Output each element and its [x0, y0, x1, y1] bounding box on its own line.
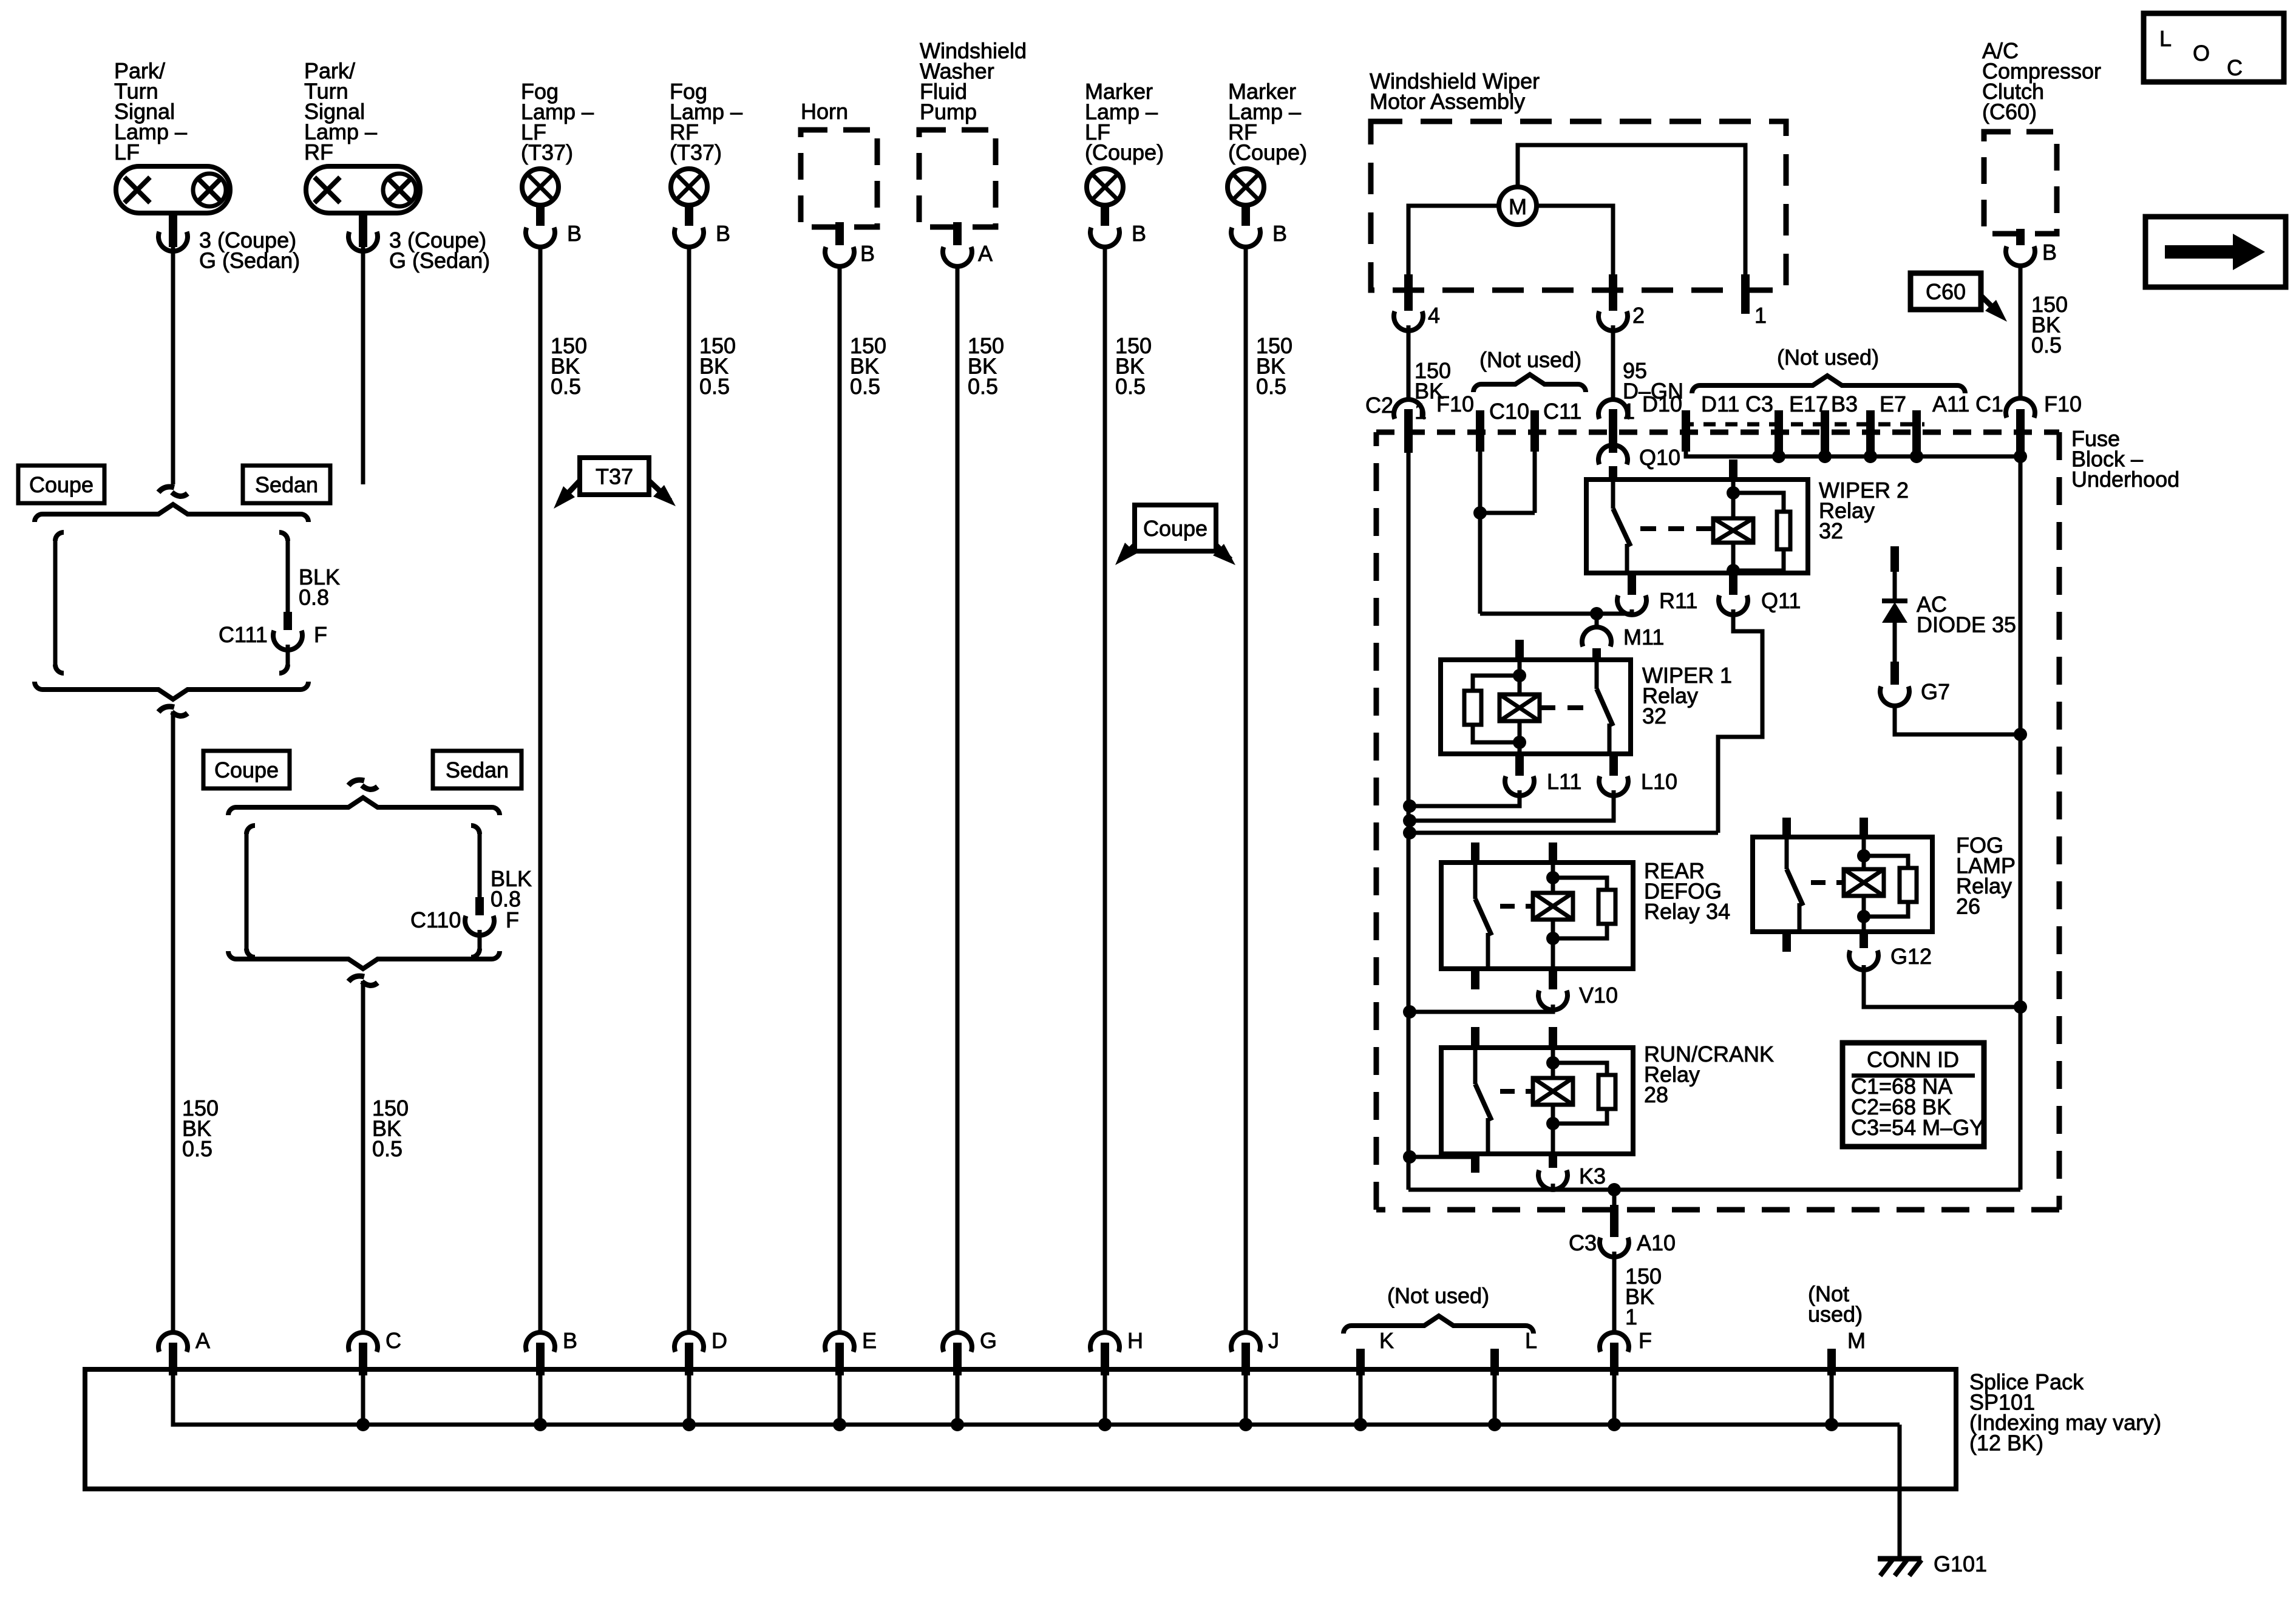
svg-text:Sedan: Sedan: [255, 472, 318, 497]
svg-text:(Not used): (Not used): [1387, 1283, 1489, 1308]
fog relay resistor: [1864, 856, 1908, 868]
svg-text:Underhood: Underhood: [2071, 467, 2179, 492]
svg-text:DIODE 35: DIODE 35: [1917, 612, 2016, 637]
connector C110 pin F: [475, 897, 484, 915]
wiper1 coil: [1518, 661, 1522, 694]
wiper2 coil: [1731, 481, 1736, 520]
splice pin A: [158, 1332, 188, 1352]
svg-text:K3: K3: [1579, 1164, 1606, 1188]
wire park LF to splice A: [171, 711, 175, 1334]
svg-text:0.5: 0.5: [551, 374, 581, 399]
splice pin D: [674, 1332, 704, 1352]
svg-text:0.5: 0.5: [968, 374, 998, 399]
svg-text:C10: C10: [1489, 399, 1529, 424]
svg-text:C60: C60: [1926, 279, 1966, 304]
svg-text:Coupe: Coupe: [214, 758, 279, 782]
svg-text:Q10: Q10: [1639, 445, 1680, 470]
svg-text:1: 1: [1754, 303, 1767, 328]
connector M11 (wiper 1 relay input): [1595, 614, 1599, 629]
svg-text:(Not used): (Not used): [1777, 345, 1879, 370]
connector C1 F10 (fuse block top, from A/C clutch): [2006, 398, 2035, 418]
svg-text:Pump: Pump: [920, 100, 977, 124]
park/turn signal lamp symbol at x=598: [306, 166, 420, 213]
runcrank dashed actuator link: [1500, 1089, 1533, 1094]
fog relay switch: [1782, 818, 1791, 838]
wiper1 pin L10: [1609, 754, 1618, 776]
wire runcrank switch to left bus: [1410, 1155, 1475, 1159]
wire fog LF to splice B: [538, 245, 543, 1334]
wire G12 to right bus: [1864, 965, 2020, 1007]
wire Q11 to ground bus line: [1718, 609, 1762, 833]
svg-text:T37: T37: [596, 464, 633, 489]
option label box Sedan: [243, 466, 330, 503]
washer pump pin A: [953, 222, 962, 245]
connector G7: [1880, 686, 1909, 706]
motor pin 1: [1741, 274, 1750, 314]
option bracket top (section 1): [35, 514, 42, 522]
motor pin 4: [1404, 274, 1413, 311]
fog lamp LF bulb: [522, 169, 559, 205]
svg-text:RF: RF: [304, 140, 333, 164]
svg-text:4: 4: [1428, 303, 1440, 328]
CONN ID table: [1843, 1043, 1984, 1147]
wire break on park RF wire: [348, 780, 364, 785]
svg-text:E7: E7: [1880, 392, 1906, 416]
svg-text:G (Sedan): G (Sedan): [389, 248, 490, 273]
svg-text:B: B: [860, 241, 875, 266]
wiper1 pin L11: [1515, 754, 1524, 776]
svg-text:used): used): [1808, 1302, 1863, 1327]
splice pin J: [1231, 1332, 1260, 1352]
svg-text:(Not used): (Not used): [1479, 347, 1581, 372]
svg-text:(T37): (T37): [521, 140, 573, 165]
splice pin F (from fuse block): [1600, 1332, 1629, 1352]
svg-text:E: E: [862, 1328, 877, 1353]
splice pin G: [943, 1332, 972, 1352]
fog lamp RF bulb: [671, 169, 707, 205]
wiper2 switch: [1611, 481, 1615, 509]
wire break on park LF wire: [158, 487, 174, 492]
wire L10 to left bus: [1410, 790, 1614, 821]
svg-text:0.5: 0.5: [1115, 374, 1146, 399]
A/C pin B: [2016, 229, 2025, 245]
fog relay coil: [1860, 818, 1868, 838]
marker lamp RF bulb: [1228, 169, 1264, 205]
svg-text:0.5: 0.5: [2031, 333, 2062, 358]
runcrank pin K3: [1549, 1154, 1557, 1168]
svg-text:G: G: [980, 1328, 997, 1353]
svg-text:M: M: [1509, 194, 1527, 219]
svg-text:B: B: [567, 221, 582, 246]
svg-text:G7: G7: [1921, 679, 1950, 704]
svg-text:C111: C111: [219, 622, 268, 647]
REAR DEFOG Relay 34 box: [1441, 863, 1633, 969]
runcrank switch: [1471, 1027, 1479, 1049]
defog pin V10: [1549, 969, 1557, 989]
callout box Coupe with arrows (marker lamps): [1135, 505, 1216, 551]
wire A10 to splice F: [1612, 1252, 1617, 1334]
svg-text:Sedan: Sedan: [446, 758, 509, 782]
svg-text:M11: M11: [1623, 625, 1664, 649]
svg-text:0.5: 0.5: [182, 1136, 212, 1161]
svg-text:(C60): (C60): [1982, 100, 2037, 124]
svg-text:2: 2: [1632, 303, 1645, 328]
FOG LAMP Relay 26 box: [1753, 837, 1932, 932]
svg-text:CONN ID: CONN ID: [1867, 1047, 1959, 1072]
wiper motor assembly dashed box: [1371, 121, 1786, 290]
runcrank coil: [1549, 1027, 1557, 1049]
splice pack SP101 box: [85, 1369, 1956, 1489]
wire horn to splice E: [838, 265, 842, 1334]
fuse block bottom ground bus: [1408, 1188, 2020, 1192]
callout box T37 with arrows: [580, 458, 649, 495]
wiper motor M circle: [1499, 187, 1537, 225]
marker lamp LF bulb: [1087, 169, 1123, 205]
svg-text:G (Sedan): G (Sedan): [199, 248, 300, 273]
wire V10 to left bus: [1410, 1005, 1553, 1012]
washer pump dashed box: [919, 130, 996, 227]
wiper1 coil pin free stub: [1515, 640, 1524, 661]
WIPER 1 Relay 32 box: [1441, 660, 1631, 754]
wiper2 pin Q11: [1729, 573, 1737, 595]
wire not-used pins to right bus: [1686, 452, 2020, 456]
wire marker LF to splice H: [1103, 245, 1107, 1334]
svg-text:(T37): (T37): [670, 140, 722, 165]
wiper2 resistor: [1733, 493, 1784, 512]
svg-text:F10: F10: [1436, 392, 1474, 416]
svg-text:Motor Assembly: Motor Assembly: [1370, 89, 1525, 114]
coupe option wire (section 2 left): [246, 825, 255, 834]
svg-text:C3: C3: [1569, 1230, 1597, 1255]
runcrank resistor: [1553, 1063, 1607, 1075]
WIPER 2 Relay 32 box: [1586, 480, 1808, 573]
LOC legend box: [2144, 13, 2284, 82]
svg-text:J: J: [1268, 1328, 1279, 1353]
svg-text:F: F: [314, 622, 327, 647]
fuse block right bus from F10: [2019, 452, 2023, 1190]
splice pin C: [348, 1332, 378, 1352]
svg-text:Coupe: Coupe: [1143, 516, 1207, 541]
svg-text:L: L: [1525, 1328, 1537, 1353]
wire motor to pin 4: [1408, 206, 1499, 285]
connector C2 F10 (fuse block top, from motor pin 4): [1394, 399, 1423, 419]
svg-text:A10: A10: [1637, 1230, 1676, 1255]
svg-text:(Coupe): (Coupe): [1085, 140, 1164, 165]
svg-text:1: 1: [1625, 1304, 1637, 1329]
svg-text:(Coupe): (Coupe): [1228, 140, 1307, 165]
svg-text:B3: B3: [1831, 392, 1858, 416]
svg-text:K: K: [1379, 1328, 1394, 1353]
svg-text:H: H: [1127, 1328, 1143, 1353]
svg-text:G12: G12: [1890, 944, 1932, 969]
option label box Coupe: [18, 466, 104, 503]
motor pin 2: [1609, 274, 1617, 311]
svg-text:C: C: [2227, 55, 2243, 80]
wire R11 to M11 junction and C10/C11 loop: [1630, 609, 1634, 614]
svg-text:A: A: [978, 241, 993, 266]
option bracket top (section 2): [228, 807, 236, 815]
horn pin B: [835, 222, 844, 245]
svg-text:26: 26: [1956, 894, 1980, 919]
svg-text:0.5: 0.5: [699, 374, 730, 399]
svg-text:D10: D10: [1642, 392, 1682, 416]
svg-text:B: B: [1272, 221, 1287, 246]
wire break below section 2: [348, 976, 364, 981]
svg-text:LF: LF: [114, 140, 140, 164]
wire Q11 path to left bus: [1410, 831, 1718, 835]
wire pin 4 to fuse block C2: [1407, 325, 1411, 401]
defog dashed actuator link: [1500, 904, 1533, 909]
svg-text:0.5: 0.5: [850, 374, 880, 399]
option label box Coupe (section 2): [203, 751, 290, 788]
wiper2 pin R11: [1628, 573, 1636, 595]
fuse block left ground bus: [1407, 452, 1411, 1190]
svg-text:A: A: [195, 1328, 210, 1353]
option bracket bottom (section 2): [228, 951, 236, 959]
sedan option wire (section 2 right): [471, 825, 480, 834]
svg-text:L10: L10: [1641, 769, 1677, 794]
coupe option wire (section 1 left): [55, 532, 64, 541]
svg-text:C2: C2: [1365, 393, 1393, 418]
svg-text:Coupe: Coupe: [29, 472, 93, 497]
svg-text:R11: R11: [1659, 588, 1697, 613]
defog coil: [1549, 842, 1557, 864]
svg-text:D11: D11: [1701, 392, 1739, 416]
svg-text:32: 32: [1642, 703, 1666, 728]
svg-text:C3=54 M–GY: C3=54 M–GY: [1851, 1115, 1984, 1140]
wire G7 to right bus: [1895, 704, 2020, 734]
svg-text:F10: F10: [2044, 392, 2082, 416]
svg-text:28: 28: [1644, 1082, 1668, 1107]
RUN/CRANK Relay 28 box: [1441, 1048, 1633, 1154]
svg-text:B: B: [563, 1328, 577, 1353]
fuse block underhood dashed outline: [1376, 430, 2059, 435]
svg-text:A11: A11: [1932, 392, 1969, 416]
svg-text:M: M: [1847, 1328, 1866, 1353]
wiper2 coil pin free stub: [1729, 459, 1737, 481]
splice pin H: [1090, 1332, 1119, 1352]
wiper1 dashed actuator link: [1540, 705, 1583, 710]
svg-text:C110: C110: [410, 907, 461, 932]
splice pack internal bus: [173, 1375, 1900, 1425]
connector C3 A10: [1612, 1190, 1617, 1205]
option label box Sedan (section 2): [433, 751, 521, 788]
ground G101: [1878, 1556, 1921, 1562]
splice ground wire to G101: [1898, 1425, 1902, 1559]
svg-text:C3: C3: [1745, 392, 1773, 416]
wire park RF to splice C: [361, 981, 365, 1334]
wire pin 2 to fuse block D10: [1611, 325, 1615, 401]
svg-text:0.5: 0.5: [1256, 374, 1286, 399]
svg-text:32: 32: [1819, 518, 1843, 543]
defog switch: [1471, 842, 1479, 864]
defog resistor: [1553, 878, 1607, 890]
svg-text:(12 BK): (12 BK): [1969, 1431, 2043, 1456]
svg-text:L11: L11: [1547, 769, 1581, 794]
park/turn signal lamp symbol at x=285: [116, 166, 230, 213]
svg-text:F: F: [506, 907, 519, 932]
svg-text:C11: C11: [1543, 399, 1581, 424]
svg-text:L: L: [2159, 26, 2172, 51]
connector D10 (fuse block top, from motor pin 2): [1598, 399, 1628, 419]
wire motor to pin 2: [1537, 206, 1613, 285]
wiper1 resistor: [1473, 676, 1520, 691]
svg-text:B: B: [2042, 240, 2057, 265]
wire L11 to left bus: [1410, 790, 1520, 806]
wire fog RF to splice D: [687, 245, 691, 1334]
wiper1 switch: [1595, 661, 1599, 689]
wiper2 dashed actuator link: [1640, 526, 1713, 531]
option bracket bottom (section 1): [35, 682, 42, 690]
svg-text:B: B: [716, 221, 730, 246]
connector C111 pin F: [284, 612, 292, 630]
svg-text:V10: V10: [1579, 983, 1618, 1008]
arrow legend box: [2145, 217, 2286, 287]
svg-text:Horn: Horn: [801, 99, 848, 124]
horn dashed box: [801, 130, 877, 227]
svg-text:C: C: [385, 1328, 401, 1353]
splice pin B: [526, 1332, 555, 1352]
wire pump to splice G: [956, 265, 960, 1334]
wire motor to pin 1: [1518, 145, 1745, 285]
fog relay dashed actuator link: [1811, 880, 1844, 885]
svg-text:G101: G101: [1934, 1551, 1987, 1576]
wire A/C to fuse block C1 F10: [2019, 265, 2023, 399]
svg-text:O: O: [2193, 41, 2210, 66]
svg-text:Relay 34: Relay 34: [1644, 899, 1730, 924]
sedan option wire (section 1 right): [279, 532, 288, 541]
A/C clutch dashed box: [1984, 132, 2057, 234]
svg-text:0.8: 0.8: [299, 585, 329, 610]
svg-text:B: B: [1132, 221, 1146, 246]
svg-text:C1: C1: [1975, 392, 2003, 416]
connector Q10 (wiper 2 relay input): [1598, 445, 1628, 464]
svg-text:Q11: Q11: [1761, 588, 1801, 613]
wire break below section 1: [158, 707, 174, 712]
svg-text:0.5: 0.5: [372, 1136, 402, 1161]
AC DIODE 35: [1890, 546, 1899, 572]
svg-text:D: D: [712, 1328, 727, 1353]
fog relay pin G12: [1860, 932, 1868, 948]
wire marker RF to splice J: [1244, 245, 1248, 1334]
splice pin E: [825, 1332, 854, 1352]
callout box C60 with arrow: [1911, 273, 1981, 310]
svg-text:F: F: [1639, 1328, 1652, 1353]
